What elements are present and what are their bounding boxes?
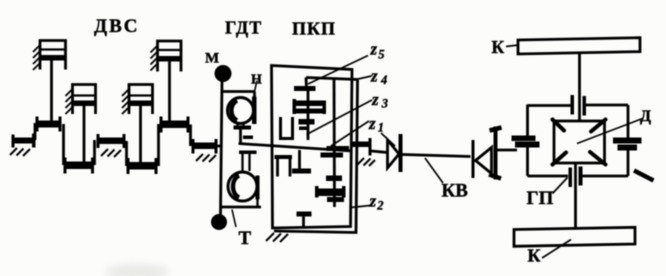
svg-text:ДВС: ДВС [94, 16, 139, 37]
svg-text:2: 2 [376, 199, 383, 213]
svg-text:4: 4 [380, 73, 387, 87]
svg-text:ПКП: ПКП [292, 19, 336, 39]
svg-text:z: z [368, 114, 376, 133]
svg-text:ГДТ: ГДТ [225, 18, 262, 38]
svg-text:М: М [205, 51, 219, 67]
svg-text:z: z [370, 40, 378, 59]
svg-text:1: 1 [378, 121, 384, 135]
svg-text:К: К [492, 37, 505, 57]
svg-text:ГП: ГП [527, 188, 554, 209]
svg-text:3: 3 [381, 97, 388, 111]
svg-text:z: z [369, 192, 377, 211]
svg-text:Т: Т [239, 228, 252, 249]
svg-text:К: К [528, 246, 541, 266]
svg-text:КВ: КВ [442, 181, 469, 202]
svg-text:z: z [370, 67, 378, 86]
svg-text:5: 5 [378, 48, 384, 62]
svg-text:z: z [371, 90, 379, 109]
svg-text:Н: Н [251, 73, 262, 88]
svg-text:Д: Д [640, 108, 651, 125]
